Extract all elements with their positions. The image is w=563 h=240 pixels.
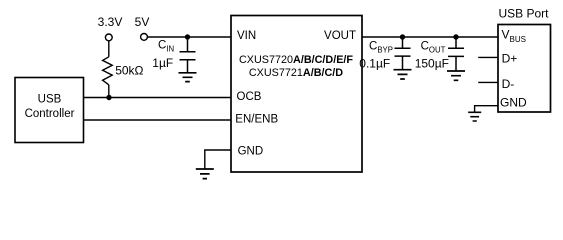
wire GND pin to ground: [205, 150, 231, 169]
junction dot COUT: [453, 34, 458, 39]
wire D+ stub: [478, 56, 498, 58]
resistor R1 50k: [103, 57, 144, 85]
USB Port connector J1: [498, 6, 551, 112]
svg-text:GND: GND: [500, 96, 527, 110]
wire USB GND to ground: [475, 106, 498, 113]
svg-text:GND: GND: [238, 146, 264, 158]
wire 5V to VIN: [147, 36, 231, 38]
wire EN/ENB: [84, 119, 232, 121]
svg-text:3.3V: 3.3V: [98, 15, 123, 29]
wire VOUT to VBUS: [362, 36, 498, 38]
ground (USB Port): [468, 112, 481, 121]
junction dot resistor/OCB: [106, 95, 111, 100]
svg-text:CIN: CIN: [158, 40, 174, 54]
svg-text:CXUS7720A/B/C/D/E/F: CXUS7720A/B/C/D/E/F: [239, 54, 353, 66]
svg-text:CBYP: CBYP: [369, 41, 393, 55]
ground (C_BYP): [394, 70, 412, 79]
wire OCB: [84, 97, 232, 99]
ground (C_IN): [179, 73, 197, 82]
svg-text:VOUT: VOUT: [324, 30, 356, 42]
svg-text:50kΩ: 50kΩ: [115, 64, 143, 78]
svg-text:EN/ENB: EN/ENB: [235, 114, 278, 126]
capacitor C_BYP: [359, 37, 410, 70]
ground (U1 GND): [196, 169, 214, 179]
svg-text:D-: D-: [502, 77, 515, 91]
wire D- stub: [478, 81, 498, 83]
junction dot CBYP: [400, 34, 405, 39]
svg-text:USB Port: USB Port: [498, 6, 549, 20]
3.3V supply terminal: [98, 15, 123, 41]
svg-text:COUT: COUT: [421, 41, 446, 55]
svg-text:USB: USB: [38, 93, 62, 105]
svg-text:D+: D+: [502, 52, 518, 66]
wire resistor to OCB net: [108, 85, 110, 98]
svg-text:CXUS7721A/B/C/D: CXUS7721A/B/C/D: [249, 67, 343, 79]
svg-text:150µF: 150µF: [415, 56, 449, 70]
svg-text:1µF: 1µF: [152, 56, 173, 70]
regulator U1 CXUS7720/CXUS7721: [231, 16, 362, 173]
svg-text:Controller: Controller: [25, 108, 75, 120]
svg-text:5V: 5V: [135, 15, 150, 29]
wire 3.3V to resistor: [108, 41, 110, 57]
svg-text:OCB: OCB: [237, 91, 262, 103]
svg-text:VIN: VIN: [237, 30, 256, 42]
ground (C_OUT): [447, 71, 465, 80]
capacitor C_OUT: [415, 37, 464, 71]
USB Controller: [15, 78, 84, 143]
junction dot CIN: [185, 34, 190, 39]
5V supply terminal: [135, 15, 150, 40]
svg-text:0.1µF: 0.1µF: [359, 56, 390, 70]
capacitor C_IN: [152, 37, 195, 73]
